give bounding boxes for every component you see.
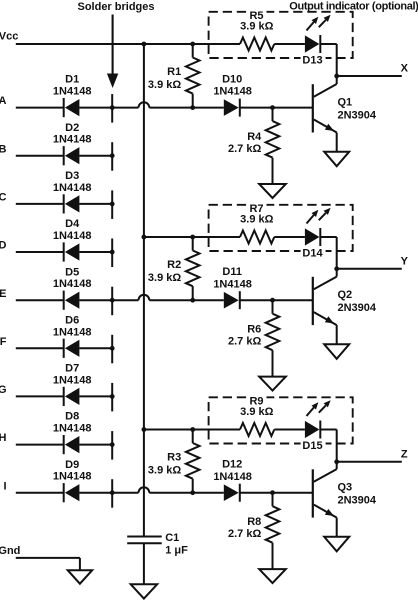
svg-text:1N4148: 1N4148 — [53, 230, 92, 242]
resistor R2 — [148, 237, 200, 300]
wire diode D3 to solder-bridge column — [79, 203, 112, 205]
svg-text:R2: R2 — [167, 259, 181, 271]
svg-text:R8: R8 — [247, 516, 261, 528]
wire row I with hop over bus — [112, 487, 224, 492]
svg-text:R3: R3 — [167, 452, 181, 464]
svg-text:D14: D14 — [302, 248, 323, 260]
wire LED D14 to output node — [320, 237, 336, 269]
wire diode D8 to solder-bridge column — [79, 444, 112, 446]
svg-text:Solder bridges: Solder bridges — [77, 1, 154, 13]
LED D13 — [301, 15, 331, 67]
svg-text:3.9 kΩ: 3.9 kΩ — [240, 213, 273, 225]
wire LED D13 to output node — [320, 44, 336, 76]
wire D11 to base — [240, 299, 313, 301]
transistor Q1 2N3904 — [313, 76, 377, 151]
svg-text:1N4148: 1N4148 — [53, 182, 92, 194]
diode D11 — [213, 266, 252, 309]
svg-text:D6: D6 — [65, 314, 79, 326]
junction row B solder-bridge node — [110, 153, 115, 158]
svg-text:Gnd: Gnd — [0, 545, 20, 557]
diode D5 (E input, 1N4148) — [53, 266, 92, 310]
svg-text:D2: D2 — [65, 122, 79, 134]
svg-text:2.7 kΩ: 2.7 kΩ — [228, 143, 261, 155]
net label Gnd — [0, 545, 20, 557]
svg-text:D: D — [0, 240, 7, 252]
svg-text:Vcc: Vcc — [0, 31, 18, 43]
wire LED D15 to output node — [320, 430, 336, 462]
solder bridge dash at row B — [111, 142, 113, 171]
diode D10 — [213, 73, 252, 116]
svg-text:1N4148: 1N4148 — [53, 374, 92, 386]
wire input I to diode — [16, 492, 64, 494]
wire diode D9 to solder-bridge column — [79, 492, 112, 494]
svg-text:3.9 kΩ: 3.9 kΩ — [148, 272, 181, 284]
resistor R8 — [228, 493, 279, 569]
svg-text:1N4148: 1N4148 — [53, 278, 92, 290]
transistor Q2 2N3904 — [313, 269, 377, 344]
junction R1 top — [190, 42, 195, 47]
wire R9 to LED — [274, 429, 305, 431]
svg-text:3.9 kΩ: 3.9 kΩ — [148, 465, 181, 477]
svg-text:3.9 kΩ: 3.9 kΩ — [240, 20, 273, 32]
wire input E to diode — [16, 299, 64, 301]
svg-text:2N3904: 2N3904 — [338, 109, 377, 121]
node A input label — [0, 95, 7, 107]
solder bridge dash at row H — [111, 431, 113, 460]
svg-text:X: X — [401, 63, 409, 75]
svg-text:D9: D9 — [65, 459, 79, 471]
resistor R1 — [148, 44, 200, 108]
wire diode D6 to solder-bridge column — [79, 347, 112, 349]
junction output node Z — [334, 459, 339, 464]
svg-text:1 μF: 1 μF — [165, 545, 188, 557]
junction row F solder-bridge node — [110, 346, 115, 351]
output indicator dashed box (R7/D14) — [209, 205, 353, 251]
wire row E with hop over bus — [112, 295, 224, 300]
capacitor C1 — [127, 532, 188, 584]
node H input label — [0, 432, 7, 444]
junction row G solder-bridge node — [110, 394, 115, 399]
diode D4 (D input, 1N4148) — [53, 218, 92, 262]
junction row D solder-bridge node — [110, 250, 115, 255]
wire R7 to LED — [274, 236, 305, 238]
output indicator dashed box (R9/D15) — [209, 397, 353, 443]
node D input label — [0, 240, 7, 252]
diode D2 (B input, 1N4148) — [53, 122, 92, 166]
svg-text:1N4148: 1N4148 — [53, 423, 92, 435]
junction bus/branch Y — [142, 235, 147, 240]
wire diode D4 to solder-bridge column — [79, 251, 112, 253]
junction output node Y — [334, 266, 339, 271]
wire input H to diode — [16, 444, 64, 446]
svg-text:3.9 kΩ: 3.9 kΩ — [148, 79, 181, 91]
solder-bridges pointer arrow — [107, 15, 118, 89]
svg-text:C: C — [0, 192, 7, 204]
wire input F to diode — [16, 347, 64, 349]
diode D3 (C input, 1N4148) — [53, 170, 92, 214]
node C input label — [0, 192, 7, 204]
svg-text:D12: D12 — [222, 459, 242, 471]
svg-text:2.7 kΩ: 2.7 kΩ — [228, 335, 261, 347]
diode D8 (H input, 1N4148) — [53, 411, 92, 455]
svg-text:D3: D3 — [65, 170, 79, 182]
junction row H solder-bridge node — [110, 442, 115, 447]
annotation "Solder bridges" title — [77, 1, 154, 13]
solder bridge dash at row D — [111, 239, 113, 268]
svg-text:1N4148: 1N4148 — [213, 278, 252, 290]
wire diode D7 to solder-bridge column — [79, 395, 112, 397]
annotation "Output indicator (optional)" title — [289, 0, 418, 12]
diode D6 (F input, 1N4148) — [53, 314, 92, 358]
wire D12 to base — [240, 492, 313, 494]
svg-text:D11: D11 — [222, 266, 242, 278]
diode D9 (I input, 1N4148) — [53, 459, 92, 503]
svg-text:E: E — [0, 288, 7, 300]
wire branch Z gate — [144, 429, 240, 431]
wire input G to diode — [16, 395, 64, 397]
resistor R6 — [228, 300, 279, 376]
net label X — [401, 63, 409, 75]
svg-text:3.9 kΩ: 3.9 kΩ — [240, 406, 273, 418]
junction row A solder-bridge node — [110, 105, 115, 110]
net label Z — [401, 448, 408, 460]
wire Vcc vertical bus — [143, 44, 145, 537]
ground below C1 — [131, 584, 158, 598]
svg-text:B: B — [0, 143, 7, 155]
svg-text:H: H — [0, 432, 7, 444]
wire diode D1 to solder-bridge column — [79, 107, 112, 109]
svg-text:Q1: Q1 — [338, 97, 353, 109]
solder bridge dash at row G — [111, 383, 113, 412]
wire diode D5 to solder-bridge column — [79, 299, 112, 301]
resistor R5 — [240, 10, 274, 51]
wire R5 to LED — [274, 43, 305, 45]
ground below Q3 emitter — [324, 537, 349, 552]
svg-text:1N4148: 1N4148 — [213, 471, 252, 483]
wire output X — [337, 75, 402, 77]
resistor R4 — [228, 108, 279, 184]
svg-text:D1: D1 — [65, 74, 79, 86]
node I input label — [3, 480, 6, 492]
wire Gnd rail — [16, 558, 80, 570]
junction R3 top — [190, 427, 195, 432]
svg-text:D15: D15 — [302, 440, 322, 452]
svg-text:1N4148: 1N4148 — [53, 86, 92, 98]
wire D10 to base — [240, 107, 313, 109]
junction Vcc/bus — [142, 42, 147, 47]
junction R3 bottom — [190, 490, 195, 495]
resistor R9 — [240, 396, 274, 437]
junction row I solder-bridge node — [110, 490, 115, 495]
junction output node X — [334, 74, 339, 79]
ground below Q1 emitter — [324, 152, 349, 167]
node F input label — [0, 336, 7, 348]
transistor Q3 2N3904 — [313, 462, 377, 537]
solder bridge dash at row A — [111, 94, 113, 123]
svg-text:R6: R6 — [247, 324, 261, 336]
svg-text:D13: D13 — [302, 55, 322, 67]
junction R4 top — [270, 105, 275, 110]
svg-text:A: A — [0, 95, 7, 107]
svg-text:Q3: Q3 — [338, 482, 353, 494]
resistor R3 — [148, 430, 200, 493]
svg-text:2N3904: 2N3904 — [338, 494, 377, 506]
solder bridge dash at row C — [111, 190, 113, 219]
svg-text:R4: R4 — [247, 131, 262, 143]
LED D14 — [301, 208, 331, 260]
junction bus/branch Z — [142, 427, 147, 432]
ground below R8 — [259, 569, 286, 583]
ground below Q2 emitter — [324, 344, 349, 359]
svg-text:1N4148: 1N4148 — [53, 471, 92, 483]
wire input C to diode — [16, 203, 64, 205]
svg-text:C1: C1 — [165, 532, 179, 544]
diode D12 — [213, 459, 252, 502]
svg-text:1N4148: 1N4148 — [53, 326, 92, 338]
svg-text:2.7 kΩ: 2.7 kΩ — [228, 528, 261, 540]
svg-text:1N4148: 1N4148 — [53, 134, 92, 146]
junction R2 bottom — [190, 298, 195, 303]
wire input D to diode — [16, 251, 64, 253]
wire diode D2 to solder-bridge column — [79, 155, 112, 157]
output indicator dashed box (R5/D13) — [209, 12, 353, 58]
svg-text:D8: D8 — [65, 411, 79, 423]
wire Vcc rail — [16, 43, 240, 45]
svg-text:D10: D10 — [222, 73, 242, 85]
diode D7 (G input, 1N4148) — [53, 363, 92, 407]
svg-text:I: I — [3, 480, 6, 492]
net label Vcc — [0, 31, 18, 43]
solder bridge dash at row I — [111, 479, 113, 508]
node B input label — [0, 143, 7, 155]
wire input B to diode — [16, 155, 64, 157]
ground below R4 — [259, 184, 286, 198]
svg-text:G: G — [0, 384, 7, 396]
junction row C solder-bridge node — [110, 202, 115, 207]
node E input label — [0, 288, 7, 300]
junction R1 bottom — [190, 105, 195, 110]
svg-text:D7: D7 — [65, 363, 79, 375]
solder bridge dash at row E — [111, 287, 113, 316]
wire branch Y gate — [144, 236, 240, 238]
svg-text:Output indicator (optional): Output indicator (optional) — [289, 0, 418, 12]
diode D1 (A input, 1N4148) — [53, 74, 92, 118]
LED D15 — [301, 400, 331, 452]
node G input label — [0, 384, 7, 396]
svg-text:F: F — [0, 336, 7, 348]
net label Y — [401, 255, 409, 267]
ground symbol Gnd rail — [68, 570, 93, 584]
solder bridge dash at row F — [111, 335, 113, 364]
junction R2 top — [190, 235, 195, 240]
svg-text:Y: Y — [401, 255, 409, 267]
resistor R7 — [240, 203, 274, 244]
wire output Z — [337, 461, 402, 463]
wire row A with hop over bus — [112, 102, 224, 107]
svg-text:Q2: Q2 — [338, 289, 353, 301]
svg-text:R1: R1 — [167, 66, 181, 78]
junction R8 top — [270, 490, 275, 495]
wire input A to diode — [16, 107, 64, 109]
svg-text:D5: D5 — [65, 266, 79, 278]
ground below R6 — [259, 377, 286, 391]
svg-text:Z: Z — [401, 448, 408, 460]
svg-text:2N3904: 2N3904 — [338, 302, 377, 314]
junction row E solder-bridge node — [110, 298, 115, 303]
svg-text:D4: D4 — [65, 218, 80, 230]
junction R6 top — [270, 298, 275, 303]
wire output Y — [337, 268, 402, 270]
svg-text:1N4148: 1N4148 — [213, 86, 252, 98]
